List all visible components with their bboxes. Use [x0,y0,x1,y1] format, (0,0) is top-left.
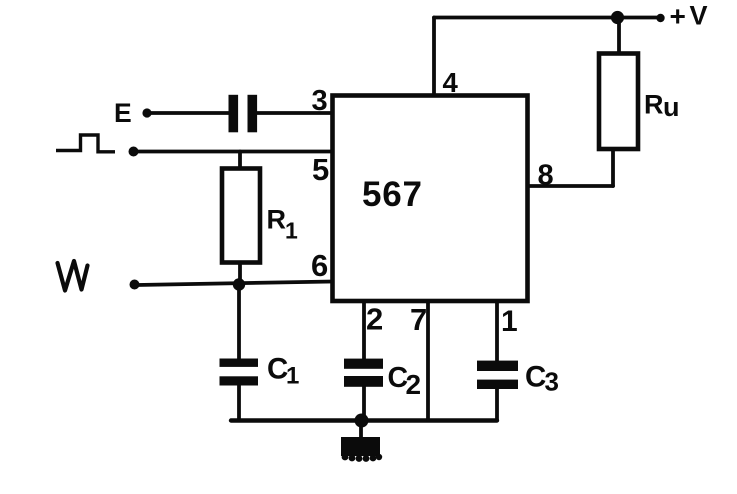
node +V/Ru junction [611,11,624,24]
wire W terminal to pin 6 [137,282,333,286]
wire pin 2 to C2 [362,300,366,360]
resistor Ru body [599,54,638,150]
svg-text:8: 8 [538,160,554,192]
svg-text:u: u [663,92,680,122]
svg-text:6: 6 [311,248,328,283]
svg-text:+: + [670,1,686,32]
op-amp U1 : IC 567 body [333,96,528,302]
wire Ru top stub [617,18,621,55]
svg-text:567: 567 [362,175,423,214]
resistor R1 body [222,169,260,263]
svg-text:1: 1 [501,305,518,338]
pulse waveform symbol [56,135,115,152]
node input E terminal [142,108,151,117]
wire pin 1 to C3 [495,300,499,362]
label W (hand drawn) [58,261,88,291]
wire C1 bottom to ground rail [237,385,241,421]
wire node to C1 top [237,284,241,360]
svg-text:R: R [644,90,664,120]
wire pin 8 to Ru bottom [611,150,615,186]
svg-text:R: R [267,205,287,235]
capacitor C2 bottom plate [344,376,383,387]
svg-text:C: C [525,361,546,394]
capacitor C1 bottom plate [220,376,259,385]
node +V terminal [656,14,664,22]
capacitor C1 top plate [220,359,259,367]
svg-text:1: 1 [285,218,298,244]
svg-text:2: 2 [366,302,383,337]
capacitor C2 top plate [344,359,383,369]
svg-text:1: 1 [286,363,299,390]
svg-text:3: 3 [312,85,328,117]
svg-text:5: 5 [312,152,329,187]
node pin5 input terminal [129,147,139,157]
node ground junction [355,414,369,428]
wire coupling cap to pin 3 [256,111,333,115]
capacitor C3 bottom plate [477,380,518,389]
wire +V top rail [434,16,660,20]
svg-text:4: 4 [443,67,459,98]
wire R1 bottom stub [238,261,242,285]
capacitor Cin left plate [229,95,239,133]
capacitor C3 top plate [477,361,518,371]
wire input to pin 5 [135,150,333,154]
wire E to coupling cap [148,111,230,115]
svg-text:V: V [690,1,708,31]
wire C3 bottom to rail [495,388,499,420]
svg-text:2: 2 [406,369,422,400]
wire C2 bottom to rail [362,386,366,420]
ground symbol [341,437,382,462]
wire ground rail [231,418,497,422]
wire pin 7 to rail [426,300,430,420]
node R1/C1/pin6 junction [233,278,245,290]
node W output terminal [130,280,140,290]
wire ground stub [359,420,363,440]
wire pin 4 vertical [432,18,436,97]
capacitor Cin right plate [248,95,258,133]
wire pin 8 horizontal [527,184,613,188]
svg-text:E: E [114,98,132,128]
svg-text:3: 3 [545,367,559,397]
svg-text:7: 7 [410,302,427,337]
wire R1 top stub [238,152,242,171]
